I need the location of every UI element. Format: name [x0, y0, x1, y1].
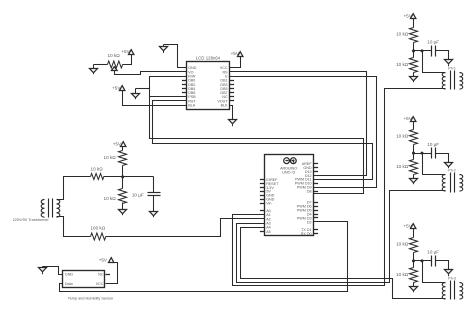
svg-text:+5V: +5V: [231, 51, 240, 56]
svg-text:10 kΩ: 10 kΩ: [396, 62, 409, 67]
svg-text:VCC: VCC: [96, 282, 104, 286]
svg-text:+5V: +5V: [403, 224, 412, 229]
ground pot: [90, 65, 98, 75]
svg-text:LCD 128x64: LCD 128x64: [196, 55, 221, 60]
svg-text:+5V: +5V: [112, 85, 121, 90]
capacitor Ph-3 10 uF: [414, 250, 449, 269]
node Ph-1 divider: [412, 49, 424, 52]
svg-text:10 kΩ: 10 kΩ: [108, 53, 121, 58]
ground LCD BLK: [229, 119, 237, 127]
ground Ph-2 divider: [410, 177, 418, 185]
capacitor C1 10 uF: [132, 177, 161, 210]
resistor Ph-1 upper 10 kOhm: [396, 19, 417, 51]
svg-text:GND: GND: [65, 273, 74, 277]
sensor U3 temp and humidity: [63, 271, 115, 301]
wire LCD RS to Arduino D12: [230, 72, 367, 176]
wire LCD E to Arduino D9: [230, 77, 377, 188]
svg-text:Vin: Vin: [266, 201, 271, 205]
node Ph-2 divider: [412, 152, 424, 155]
capacitor Ph-1 10 uF: [414, 40, 449, 59]
+5V 220V divider: [113, 141, 126, 146]
sensor NC stub: [106, 274, 111, 276]
svg-text:220V/9V Transformer: 220V/9V Transformer: [13, 218, 50, 222]
wire pot right to +5V: [123, 55, 132, 65]
ground 220V cap: [150, 210, 158, 218]
wire Ph-2 node to transformer: [423, 154, 446, 175]
resistor Ph-2 lower 10 kOhm: [396, 154, 417, 177]
svg-text:10 kΩ: 10 kΩ: [396, 241, 409, 246]
wire transformer secondary bottom: [57, 217, 91, 237]
+5V pot: [121, 49, 134, 54]
+5V LCD VCC: [231, 51, 243, 57]
svg-text:Data: Data: [65, 282, 74, 286]
svg-text:10 kΩ: 10 kΩ: [396, 134, 409, 139]
svg-text:10 kΩ: 10 kΩ: [91, 167, 104, 172]
ground LCD R/W: [132, 89, 150, 100]
svg-text:+5V: +5V: [121, 49, 130, 54]
svg-text:10 µF: 10 µF: [427, 250, 439, 255]
+5V Ph-1 divider: [403, 14, 415, 19]
node Ph-3 divider: [412, 259, 424, 262]
capacitor Ph-2 10 uF: [414, 142, 449, 161]
Arduino right pin stubs: [314, 164, 319, 234]
svg-text:BLA: BLA: [188, 103, 196, 107]
ground Ph-3 divider: [410, 285, 418, 293]
wire 100k to Arduino A2: [106, 219, 265, 237]
svg-text:10 kΩ: 10 kΩ: [396, 31, 409, 36]
wire LCD VCC to +5V: [230, 57, 241, 68]
transformer T1 220V/9V: [13, 199, 60, 223]
LCD left pin stubs DB0 DB2 DB4 DB6: [182, 81, 187, 93]
ground Ph-2 cap: [445, 161, 453, 169]
wire transformer secondary top to divider node: [57, 177, 91, 200]
svg-text:10 kΩ: 10 kΩ: [396, 272, 409, 277]
svg-text:Temp and Humidity Sensor: Temp and Humidity Sensor: [68, 296, 114, 300]
resistor Ph-3 upper 10 kOhm: [396, 229, 417, 261]
resistor Ph-2 upper 10 kOhm: [396, 122, 417, 154]
transformer Ph-1: [442, 66, 463, 89]
ground Ph-1 cap: [445, 59, 453, 67]
svg-text:+5V: +5V: [403, 116, 412, 121]
svg-text:Ph-3: Ph-3: [448, 276, 456, 280]
svg-text:10 µF: 10 µF: [427, 40, 439, 45]
wire LCD BLA to +5V: [123, 91, 187, 106]
ground sensor: [39, 267, 47, 275]
svg-text:RX D0: RX D0: [301, 232, 312, 236]
wire LCD BLK to ground: [230, 106, 233, 119]
svg-text:D2: D2: [307, 220, 312, 224]
svg-text:10 µF: 10 µF: [427, 142, 439, 147]
wire sensor GND to ground: [43, 267, 63, 275]
resistor R3 10 kOhm pullup: [104, 147, 127, 177]
svg-text:100 kΩ: 100 kΩ: [90, 226, 105, 231]
ground 220V divider: [119, 208, 127, 216]
svg-text:Ph-2: Ph-2: [448, 169, 456, 173]
wire sensor Data to Arduino D2: [60, 222, 348, 292]
resistor Ph-1 lower 10 kOhm: [396, 51, 417, 75]
svg-text:+5V: +5V: [403, 14, 412, 19]
wire Ph-3 to Arduino A4: [241, 228, 446, 299]
svg-text:A5: A5: [266, 230, 271, 234]
resistor Ph-3 lower 10 kOhm: [396, 261, 417, 285]
svg-text:+5V: +5V: [113, 141, 122, 146]
svg-text:+5V: +5V: [99, 258, 108, 263]
svg-text:BLK: BLK: [221, 103, 229, 107]
ground Ph-3 cap: [445, 269, 453, 277]
svg-text:10 µF: 10 µF: [132, 192, 144, 197]
Arduino left pin stubs: [260, 180, 265, 232]
wire Ph-3 node to transformer: [423, 261, 446, 283]
wire sensor VCC to +5V: [106, 263, 118, 284]
svg-text:10 kΩ: 10 kΩ: [104, 155, 117, 160]
resistor R5 100 kOhm: [90, 226, 105, 241]
wire Ph-1 node to transformer: [423, 51, 446, 73]
ground LCD GND: [160, 45, 168, 53]
op board Arduino UNO r3 U1: [265, 155, 314, 236]
resistor R2 10 kOhm series: [91, 167, 104, 180]
wire Ph-1 to Arduino A1: [233, 89, 446, 286]
+5V Ph-3 divider: [403, 224, 415, 229]
wire LCD RST to Arduino D11: [153, 101, 373, 180]
svg-text:10 kΩ: 10 kΩ: [104, 196, 117, 201]
LCD 128x64 U2: [187, 55, 230, 109]
wire node to cap: [104, 176, 154, 178]
+5V sensor: [99, 258, 114, 263]
wire pot left to ground: [94, 64, 108, 66]
wire pot wiper to LCD VO: [115, 71, 187, 75]
transformer Ph-2: [442, 169, 463, 193]
svg-text:Ph-1: Ph-1: [448, 66, 456, 70]
ground Ph-1 divider: [410, 75, 418, 83]
svg-text:10 kΩ: 10 kΩ: [396, 164, 409, 169]
resistor R4 10 kOhm pulldown: [104, 177, 127, 208]
+5V LCD BLA: [112, 85, 125, 90]
svg-text:D8: D8: [307, 189, 312, 193]
wire Ph-2 to Arduino A3: [237, 191, 446, 283]
potentiometer R1 10 kOhm: [108, 53, 123, 70]
+5V Ph-2 divider: [403, 116, 415, 122]
wire LCD GND to ground: [164, 45, 187, 68]
node 220V divider: [121, 175, 124, 178]
transformer Ph-3: [442, 276, 463, 299]
wire LCD R/W PSB to Arduino D8: [150, 77, 364, 194]
svg-text:UNO r3: UNO r3: [282, 171, 295, 175]
LCD right pin stubs DB1 DB3 DB5 DB7 NC VOUT: [230, 81, 235, 101]
svg-text:NC: NC: [98, 273, 104, 277]
